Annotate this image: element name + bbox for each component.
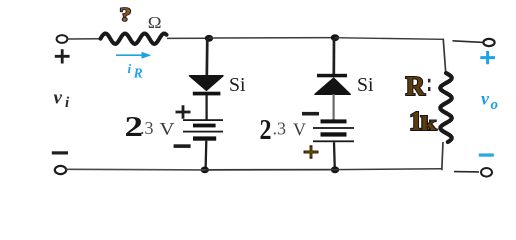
svg-text:iR: iR (128, 61, 143, 81)
svg-text:.3: .3 (273, 119, 287, 139)
svg-text:Ω: Ω (148, 13, 162, 32)
node A (junction dot, top of diode D1 branch) (205, 35, 213, 42)
diode D2 (silicon, cathode top, pointing up) (317, 74, 347, 78)
node C (junction dot, bottom of D1 branch) (201, 167, 209, 174)
wire: bottom lead into output terminal (454, 171, 479, 173)
plus sign output (cyan) (480, 51, 495, 64)
wire: node B to resistor R branch (335, 38, 443, 40)
wire: node A down to diode D1 anode (205, 38, 208, 77)
svg-text:V: V (293, 120, 306, 140)
terminal top-right (open circle) (483, 39, 494, 46)
terminal bottom-right (open circle) (481, 168, 492, 177)
leader dashes beside R (428, 79, 430, 83)
battery E1 (2.3 V, plus top): plates (183, 119, 223, 121)
svg-text:?: ? (120, 4, 132, 26)
plus sign battery E2 (orange tinted) (304, 145, 319, 159)
wire: node B down to diode D2 cathode (332, 38, 335, 75)
wire: bottom rail, node D to load resistor branch (335, 168, 442, 171)
wire: top lead into output terminal (453, 41, 484, 43)
svg-text:2: 2 (260, 115, 272, 146)
wire: bottom rail, node C to node D (205, 169, 335, 171)
node B (junction dot, top of diode D2 branch) (331, 34, 339, 41)
svg-text:vi: vi (54, 88, 70, 112)
battery E2 (2.3 V, minus top): plates (321, 119, 347, 123)
minus sign input bottom-left (52, 151, 68, 154)
wire: load resistor R to bottom rail (442, 142, 443, 170)
svg-text:.3: .3 (140, 118, 154, 138)
resistor R? (series resistor, horizontal zigzag) (101, 33, 167, 44)
wire: battery E1 to bottom rail (204, 141, 207, 170)
minus sign battery E1 (174, 144, 191, 148)
minus sign output (cyan) (479, 153, 494, 156)
diode D1 (silicon, anode top, pointing down) (190, 76, 224, 91)
wire: resistor to node A (167, 37, 209, 39)
plus sign input top-left (55, 49, 70, 63)
svg-text:k: k (421, 113, 438, 135)
wire: battery E2 to bottom rail (333, 142, 336, 169)
terminal bottom-left (open circle) (55, 166, 66, 174)
resistor R (load, 1 kOhm, vertical zigzag) (440, 73, 452, 142)
svg-text:vo: vo (481, 89, 498, 114)
wire: diode D2 anode to battery E2 (333, 94, 335, 120)
current arrow iR (cyan) (116, 54, 144, 56)
minus sign battery E2 (302, 112, 319, 116)
wire: diode D1 cathode to battery E1 (205, 95, 207, 120)
wire: bottom rail, bottom-left terminal to node C (66, 168, 205, 171)
plus sign battery E1 (176, 105, 191, 119)
wire: node A to node B (209, 37, 335, 39)
terminal top-left (open circle) (57, 35, 68, 43)
wire: top rail down to load resistor R (443, 39, 446, 74)
wire: top-left terminal to resistor R? (68, 38, 101, 40)
node D (junction dot, bottom of D2 branch) (331, 166, 339, 173)
svg-text:V: V (160, 119, 175, 139)
svg-text:Si: Si (357, 74, 374, 96)
svg-text:R: R (406, 71, 426, 101)
svg-text:Si: Si (229, 74, 246, 96)
